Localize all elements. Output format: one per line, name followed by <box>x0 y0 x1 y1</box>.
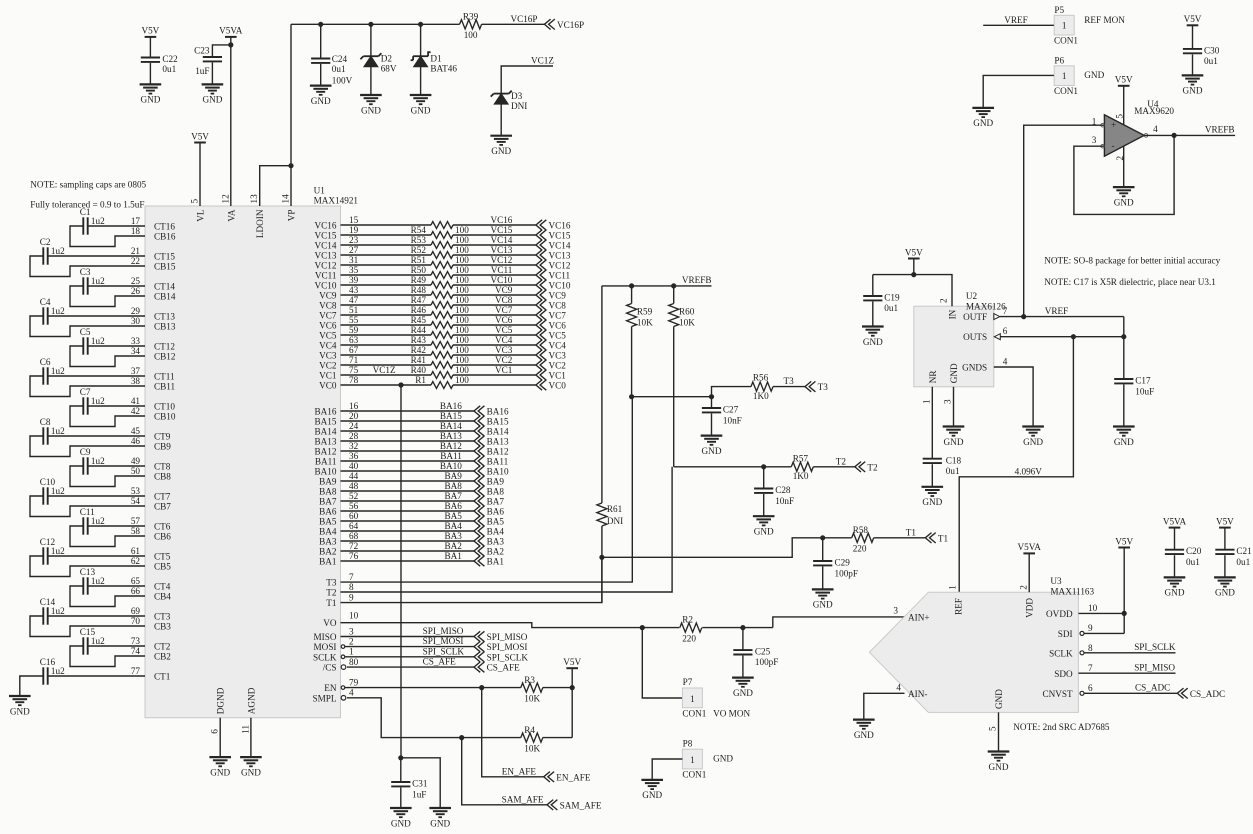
capacitor C19 0u1 <box>863 275 900 327</box>
svg-text:CB13: CB13 <box>154 322 176 332</box>
svg-text:22: 22 <box>131 256 141 266</box>
wire capacitor C7 to CB10 pin <box>70 406 145 427</box>
svg-text:1: 1 <box>921 399 931 404</box>
resistor R48 100 <box>411 285 470 299</box>
svg-text:CS_AFE: CS_AFE <box>487 663 521 673</box>
svg-text:BA10: BA10 <box>487 467 509 477</box>
wire CNVST CS_ADC <box>1084 692 1177 694</box>
svg-text:C2: C2 <box>40 237 51 247</box>
svg-text:GND: GND <box>702 446 722 456</box>
svg-text:1u2: 1u2 <box>91 396 105 406</box>
junction VO node <box>640 625 645 630</box>
svg-text:1u2: 1u2 <box>51 606 65 616</box>
U1 pin 61 CT5 <box>131 546 171 562</box>
ground C24 <box>310 86 332 106</box>
svg-text:VC1: VC1 <box>549 371 567 381</box>
svg-text:7: 7 <box>349 572 354 582</box>
net tag BA6 <box>474 506 504 517</box>
svg-text:CNVST: CNVST <box>1042 689 1073 699</box>
wire CT1 pin to capacitor C16 <box>48 675 145 677</box>
capacitor C23 1uF <box>194 45 231 85</box>
svg-text:MISO: MISO <box>314 632 337 642</box>
svg-text:70: 70 <box>131 616 141 626</box>
svg-text:MAX14921: MAX14921 <box>314 196 359 206</box>
svg-text:R41: R41 <box>411 355 427 365</box>
svg-text:CB3: CB3 <box>154 622 171 632</box>
svg-text:34: 34 <box>131 346 141 356</box>
net tag SAM_AFE <box>547 800 602 811</box>
U1 pin 47 VC8 <box>319 295 358 311</box>
resistor R53 100 <box>411 235 470 249</box>
capacitor C8 1u2 <box>40 417 65 445</box>
svg-text:1u2: 1u2 <box>51 546 65 556</box>
wire VC11 row <box>341 274 432 276</box>
U2 pin 1 NR <box>921 370 938 404</box>
net tag VC7 <box>536 310 566 321</box>
svg-text:C28: C28 <box>775 485 791 495</box>
svg-text:40: 40 <box>349 461 359 471</box>
capacitor C3 1u2 <box>80 267 105 295</box>
svg-text:GND: GND <box>973 118 993 128</box>
svg-text:60: 60 <box>349 511 359 521</box>
capacitor C7 1u2 <box>80 387 105 415</box>
svg-text:GND: GND <box>949 363 959 383</box>
op-amp U4 MAX9620 <box>1101 99 1175 156</box>
svg-text:VC5: VC5 <box>549 331 567 341</box>
U1 pin 33 CT12 <box>131 336 176 352</box>
U1 pin 28 BA13 <box>315 431 359 447</box>
U1 pin 77 CT1 <box>131 666 171 682</box>
svg-text:VC16: VC16 <box>490 215 512 225</box>
svg-text:SPI_MISO: SPI_MISO <box>1134 663 1175 673</box>
svg-text:DGND: DGND <box>216 687 226 714</box>
svg-text:V5VA: V5VA <box>1018 542 1042 552</box>
U1 pin 43 VC9 <box>319 285 358 301</box>
wire EN_AFE branch <box>482 688 544 777</box>
U3 pin 8 SCLK <box>1049 643 1093 659</box>
svg-text:CON1: CON1 <box>682 708 706 718</box>
ground C19 <box>862 327 884 347</box>
svg-text:CB9: CB9 <box>154 442 171 452</box>
net tag EN_AFE <box>544 772 591 783</box>
wire D3 to ground <box>500 104 502 136</box>
svg-text:VC9: VC9 <box>495 285 513 295</box>
capacitor C21 0u1 <box>1215 528 1252 578</box>
svg-text:61: 61 <box>131 546 141 556</box>
wire SCLK SPI_SCLK <box>1084 652 1176 654</box>
wire capacitor C2 to CB15 pin <box>30 256 145 277</box>
wire capacitor C4 to CB13 pin <box>30 316 145 337</box>
svg-text:1uF: 1uF <box>412 789 426 799</box>
net tag T3 <box>805 381 828 392</box>
junction 4.096V <box>1071 334 1076 339</box>
svg-text:0u1: 0u1 <box>1186 557 1200 567</box>
resistor R50 100 <box>411 265 470 279</box>
capacitor C2 1u2 <box>40 237 65 265</box>
U1 pin 15 VC16 <box>315 215 359 231</box>
wire capacitor C14 to CB3 pin <box>30 616 145 637</box>
svg-text:23: 23 <box>349 235 359 245</box>
wire T1 from pin 9 <box>341 557 602 602</box>
U1 pin 11 AGND <box>240 687 256 733</box>
svg-text:1u2: 1u2 <box>91 336 105 346</box>
svg-text:15: 15 <box>349 215 359 225</box>
svg-text:CB8: CB8 <box>154 472 171 482</box>
U1 pin 38 CB11 <box>131 376 176 392</box>
adc U3 MAX11163 body <box>869 576 1094 712</box>
svg-text:R48: R48 <box>411 285 427 295</box>
svg-text:BA2: BA2 <box>487 547 505 557</box>
svg-text:VC12: VC12 <box>549 261 571 271</box>
svg-text:24: 24 <box>349 421 359 431</box>
wire BA14 row <box>341 430 475 432</box>
wire VP top rail <box>291 23 460 25</box>
U1 pin 29 CT13 <box>131 306 176 322</box>
svg-text:26: 26 <box>131 286 141 296</box>
svg-text:CON1: CON1 <box>1054 36 1078 46</box>
svg-text:VC1Z: VC1Z <box>373 365 396 375</box>
svg-text:100: 100 <box>455 375 469 385</box>
svg-text:SPI_SCLK: SPI_SCLK <box>423 646 465 656</box>
svg-text:BA2: BA2 <box>444 541 462 551</box>
svg-text:DNI: DNI <box>607 516 623 526</box>
svg-text:33: 33 <box>131 336 141 346</box>
svg-text:/CS: /CS <box>323 663 337 673</box>
U1 pin 73 CT2 <box>131 636 171 652</box>
wire OUTS <box>1000 336 1124 338</box>
svg-text:VC16P: VC16P <box>557 20 584 30</box>
svg-text:GND: GND <box>754 527 774 537</box>
wire R2 to AIN+ <box>702 627 773 629</box>
ground U2 <box>943 427 965 447</box>
svg-text:72: 72 <box>349 541 359 551</box>
capacitor C27 10nF <box>702 397 742 436</box>
svg-text:SDO: SDO <box>1054 669 1073 679</box>
wire AIN- to ground <box>864 693 905 719</box>
capacitor C12 1u2 <box>40 537 65 565</box>
svg-text:C27: C27 <box>723 405 739 415</box>
U1 pin 80 /CS <box>323 657 359 673</box>
wire CT2 pin to capacitor C15 <box>88 645 145 647</box>
svg-text:VO MON: VO MON <box>713 708 750 718</box>
svg-text:VDD: VDD <box>1025 598 1035 618</box>
wire capacitor C13 to CB4 pin <box>70 586 145 607</box>
svg-text:R43: R43 <box>411 335 427 345</box>
net tag VC13 <box>536 250 571 261</box>
svg-text:REF MON: REF MON <box>1084 15 1125 25</box>
U1 pin 44 BA9 <box>319 471 358 487</box>
svg-text:SPI_SCLK: SPI_SCLK <box>487 652 529 662</box>
U1 pin 20 BA15 <box>315 411 359 427</box>
svg-text:V5V: V5V <box>1115 536 1133 546</box>
svg-text:SPI_MISO: SPI_MISO <box>487 632 528 642</box>
svg-text:SPI_MOSI: SPI_MOSI <box>423 636 464 646</box>
resistor R2 220 <box>680 615 702 644</box>
svg-text:BA6: BA6 <box>487 507 505 517</box>
svg-text:VC0: VC0 <box>319 381 337 391</box>
wire VC13 row <box>341 254 432 256</box>
U1 pin 57 CT6 <box>131 516 171 532</box>
wire VC1Z <box>501 66 553 94</box>
diode D3 DNI <box>491 91 528 112</box>
net tag VC1 <box>536 370 566 381</box>
svg-text:36: 36 <box>349 451 359 461</box>
ground D2 <box>360 95 382 115</box>
wire NR to C18 <box>931 387 933 459</box>
net tag T1 <box>925 533 948 544</box>
wire VC0 down to C31 <box>400 385 402 758</box>
svg-text:-: - <box>1112 140 1115 150</box>
svg-text:1u2: 1u2 <box>51 486 65 496</box>
wire VC0 row <box>341 384 432 386</box>
svg-text:U2: U2 <box>966 291 978 301</box>
U1 pin 75 VC1 <box>319 365 358 381</box>
svg-text:BA3: BA3 <box>444 531 462 541</box>
U1 pin 34 CB12 <box>131 346 176 362</box>
svg-text:C30: C30 <box>1204 45 1220 55</box>
svg-text:80: 80 <box>349 657 359 667</box>
svg-text:10: 10 <box>349 610 359 620</box>
svg-text:CB16: CB16 <box>154 232 176 242</box>
op-amp U1 MAX14921 body <box>145 186 358 718</box>
junction D2 <box>368 22 373 27</box>
net tag BA11 <box>474 456 509 467</box>
svg-text:VC13: VC13 <box>315 251 337 261</box>
wire CT10 pin to capacitor C7 <box>88 405 145 407</box>
svg-text:100: 100 <box>455 305 469 315</box>
wire capacitor C15 to CB2 pin <box>70 646 145 667</box>
svg-text:46: 46 <box>131 436 141 446</box>
diode D2 68V <box>360 53 396 73</box>
power V5V U2 <box>905 247 923 258</box>
wire VC9 row <box>341 294 432 296</box>
U4 pin 1 wire from VREF <box>1024 125 1105 316</box>
svg-text:T3: T3 <box>784 376 795 386</box>
svg-text:2: 2 <box>1019 585 1029 590</box>
svg-text:0u1: 0u1 <box>162 64 176 74</box>
U1 pin 42 CB10 <box>131 406 176 422</box>
svg-text:CT4: CT4 <box>154 582 171 592</box>
svg-text:GND: GND <box>813 600 833 610</box>
svg-text:VC12: VC12 <box>490 255 512 265</box>
svg-text:1u2: 1u2 <box>51 306 65 316</box>
wire BA15 row <box>341 420 475 422</box>
svg-text:V5V: V5V <box>1184 14 1202 24</box>
U1 pin 70 CB3 <box>131 616 171 632</box>
power V5V VL <box>191 131 209 142</box>
wire SPI_MOSI <box>345 646 474 648</box>
wire VC10 row <box>341 284 432 286</box>
svg-text:T2: T2 <box>867 462 878 472</box>
U1 pin 13 LDOIN <box>249 194 265 238</box>
svg-text:1: 1 <box>349 647 354 657</box>
wire BA16 row <box>341 410 475 412</box>
capacitor C17 10uF <box>1114 376 1154 427</box>
svg-text:VC14: VC14 <box>490 235 512 245</box>
net tag BA5 <box>474 516 504 527</box>
wire CT7 pin to capacitor C10 <box>48 495 145 497</box>
svg-text:C3: C3 <box>80 267 91 277</box>
wire capacitor C5 to CB12 pin <box>70 346 145 367</box>
resistor (VC16) 100 <box>431 222 453 229</box>
junction EN node <box>479 685 484 690</box>
svg-text:BA15: BA15 <box>315 417 337 427</box>
wire U4 feedback <box>1074 135 1174 214</box>
svg-text:VREF: VREF <box>1004 15 1028 25</box>
wire CT12 pin to capacitor C5 <box>88 345 145 347</box>
ground AGND branch <box>429 808 451 828</box>
wire U3 GND to ground <box>998 712 1000 751</box>
capacitor C25 100pF <box>733 628 778 678</box>
junction C28 <box>761 464 766 469</box>
net tag BA8 <box>474 486 504 497</box>
svg-text:VC16: VC16 <box>549 221 571 231</box>
U1 pin 18 CB16 <box>131 226 176 242</box>
svg-text:GND: GND <box>311 96 331 106</box>
svg-text:C21: C21 <box>1236 546 1252 556</box>
U1 pin 2 MOSI <box>314 636 354 652</box>
svg-text:C20: C20 <box>1186 546 1202 556</box>
svg-text:C22: C22 <box>162 54 178 64</box>
svg-text:V5VA: V5VA <box>1163 516 1187 526</box>
capacitor C16 1u2 <box>40 657 65 685</box>
svg-text:31: 31 <box>349 255 359 265</box>
svg-text:BA5: BA5 <box>444 511 462 521</box>
junction R59 top <box>629 283 634 288</box>
U1 pin 31 VC12 <box>315 255 359 271</box>
U3 pin 6 CNVST <box>1042 683 1093 699</box>
wire capacitor C9 to CB8 pin <box>70 466 145 487</box>
wire VO MON branch <box>642 628 682 698</box>
resistor R56 1K0 <box>751 373 773 402</box>
svg-text:67: 67 <box>349 345 359 355</box>
U1 pin 78 VC0 <box>319 375 358 391</box>
wire capacitor C10 to CB7 pin <box>30 496 145 517</box>
svg-text:SCLK: SCLK <box>1049 648 1073 658</box>
power V5VA U3 <box>1018 542 1042 553</box>
svg-text:VREFB: VREFB <box>1205 125 1235 135</box>
capacitor C11 1u2 <box>80 507 105 535</box>
U2 pin 2 IN <box>939 298 958 319</box>
U1 pin 24 BA14 <box>315 421 359 437</box>
net tag VC10 <box>536 280 571 291</box>
svg-text:BA9: BA9 <box>444 471 462 481</box>
ground U3 <box>988 752 1010 772</box>
svg-text:CB5: CB5 <box>154 562 171 572</box>
wire VC2 row <box>341 364 432 366</box>
resistor R1 100 <box>415 375 469 389</box>
wire SMPL to R4 <box>347 698 521 738</box>
capacitor C31 1uF <box>391 758 428 808</box>
junction LDOIN VP <box>288 163 293 168</box>
U1 pin 54 CB7 <box>131 496 171 512</box>
wire CT11 pin to capacitor C6 <box>48 375 145 377</box>
junction R60 top <box>671 283 676 288</box>
svg-text:R49: R49 <box>411 275 427 285</box>
net tag VC5 <box>536 330 566 341</box>
svg-text:VC11: VC11 <box>315 271 337 281</box>
svg-text:1u2: 1u2 <box>91 456 105 466</box>
ground P6 <box>972 108 994 128</box>
svg-text:CT10: CT10 <box>154 402 175 412</box>
net tag BA16 <box>474 406 509 417</box>
svg-text:7: 7 <box>1088 663 1093 673</box>
wire VP riser <box>290 24 292 206</box>
connector P5 CON1 REF MON <box>1054 5 1125 46</box>
ground DGND <box>209 757 231 777</box>
svg-text:R47: R47 <box>411 295 427 305</box>
svg-text:100pF: 100pF <box>755 657 779 667</box>
U4 pin 3 feedback wire <box>1144 134 1235 136</box>
U1 pin 76 BA1 <box>319 551 358 567</box>
svg-text:BA8: BA8 <box>319 487 337 497</box>
wire T3 node <box>632 387 751 397</box>
svg-text:VC6: VC6 <box>495 315 513 325</box>
wire V5V to U4 pin 5 <box>1123 86 1125 125</box>
ground C17 <box>1113 427 1135 447</box>
svg-text:OUTS: OUTS <box>963 332 987 342</box>
svg-text:100: 100 <box>455 295 469 305</box>
svg-text:CT16: CT16 <box>154 222 175 232</box>
wire capacitor C1 to CB16 pin <box>70 226 145 247</box>
resistor R42 100 <box>411 345 470 359</box>
wire OUTF VREF <box>1000 316 1124 318</box>
svg-text:R60: R60 <box>679 307 695 317</box>
capacitor C29 100pF <box>813 538 858 590</box>
ground C30 <box>1182 75 1204 95</box>
svg-text:100: 100 <box>455 355 469 365</box>
svg-text:BA16: BA16 <box>315 407 337 417</box>
svg-text:10K: 10K <box>637 318 653 328</box>
svg-text:19: 19 <box>349 225 359 235</box>
U1 pin 64 BA4 <box>319 521 358 537</box>
svg-text:VC8: VC8 <box>549 301 567 311</box>
wire DGND to ground <box>219 718 221 757</box>
svg-text:1u2: 1u2 <box>51 426 65 436</box>
net tag BA4 <box>474 526 504 537</box>
svg-text:CT6: CT6 <box>154 522 171 532</box>
svg-text:NOTE: sampling caps are 0805: NOTE: sampling caps are 0805 <box>30 180 146 190</box>
svg-text:10K: 10K <box>524 744 540 754</box>
svg-text:R51: R51 <box>411 255 427 265</box>
ground D1 <box>410 95 432 115</box>
svg-text:GND: GND <box>1084 70 1104 80</box>
svg-text:18: 18 <box>131 226 141 236</box>
svg-text:CB7: CB7 <box>154 502 171 512</box>
svg-text:R61: R61 <box>607 504 623 514</box>
power V5VA <box>219 26 243 37</box>
svg-text:CON1: CON1 <box>682 769 706 779</box>
wire T2 node <box>674 466 792 468</box>
wire VC6 row <box>341 324 432 326</box>
svg-text:12: 12 <box>220 194 230 204</box>
svg-text:VC0: VC0 <box>549 381 567 391</box>
wire BA12 row <box>341 450 475 452</box>
connector P6 CON1 GND <box>1054 55 1105 96</box>
ground C27 <box>701 436 723 456</box>
svg-text:35: 35 <box>349 265 359 275</box>
svg-text:10K: 10K <box>524 694 540 704</box>
U1 pin 58 CB6 <box>131 526 171 542</box>
U1 pin 79 EN <box>324 677 358 693</box>
svg-text:V5V: V5V <box>191 131 209 141</box>
svg-text:BA14: BA14 <box>440 421 462 431</box>
svg-text:BA6: BA6 <box>319 507 337 517</box>
U1 pin 62 CB5 <box>131 556 171 572</box>
svg-text:100: 100 <box>455 365 469 375</box>
junction C24 <box>318 22 323 27</box>
svg-text:VC7: VC7 <box>549 311 567 321</box>
